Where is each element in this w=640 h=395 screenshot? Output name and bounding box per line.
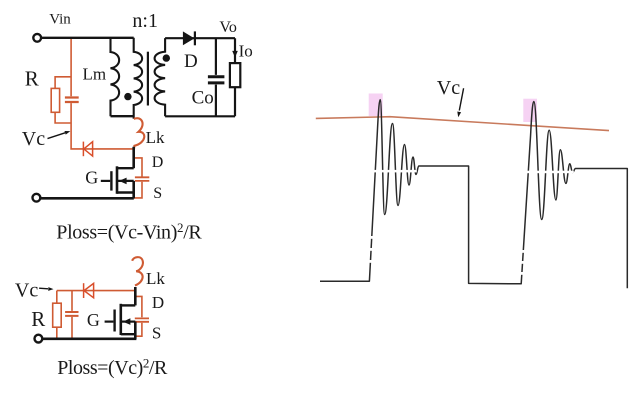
resistor R2 (clamp resistor, bottom circuit) xyxy=(53,291,62,339)
svg-text:Vo: Vo xyxy=(219,19,237,36)
terminal (top-left input) xyxy=(33,34,41,42)
label R (top circuit) xyxy=(25,67,39,91)
diode D3 (orange clamp diode, bottom circuit) xyxy=(84,283,94,298)
svg-text:S: S xyxy=(152,324,161,343)
highlight (second clamp interval, pink) xyxy=(523,99,537,122)
label D (output diode) xyxy=(184,51,198,72)
label G (top circuit) xyxy=(85,168,98,188)
wire (secondary top rail to Vo) xyxy=(165,37,235,39)
svg-text:n:1: n:1 xyxy=(132,10,158,32)
svg-text:G: G xyxy=(85,168,98,188)
transformer primary winding xyxy=(134,38,142,119)
svg-text:Vc: Vc xyxy=(15,280,38,302)
diode D1 (output rectifier) xyxy=(183,31,195,45)
svg-text:Lm: Lm xyxy=(83,65,107,84)
svg-text:Ploss=(Vc)2/R: Ploss=(Vc)2/R xyxy=(57,356,168,380)
label Ploss formula (top circuit) xyxy=(56,220,202,244)
svg-text:Lk: Lk xyxy=(146,269,165,288)
svg-text:Lk: Lk xyxy=(146,128,165,147)
arrow (Vc pointer, bottom circuit) xyxy=(39,287,53,291)
wire (transformer bottom jumper Lm to primary) xyxy=(111,115,134,117)
label Vin xyxy=(49,12,71,28)
terminal (bottom-left return, top circuit) xyxy=(33,194,41,202)
diode D2 (orange clamp diode) xyxy=(83,142,92,157)
transformer core xyxy=(147,52,149,106)
label Ploss formula (bottom circuit) xyxy=(57,356,168,380)
svg-text:D: D xyxy=(152,154,164,171)
label Io xyxy=(239,42,253,61)
wire (white gap band over ringing, period 1) xyxy=(368,170,417,173)
arrow (Vc pointer, top circuit) xyxy=(48,131,71,139)
label Lm xyxy=(83,65,107,84)
svg-text:Io: Io xyxy=(239,42,253,61)
label Lk (top circuit) xyxy=(146,128,165,147)
label S (bottom MOSFET) xyxy=(152,324,161,343)
inductor Lm (magnetizing inductance) xyxy=(111,38,120,116)
capacitor C2 (orange drain-source cap, top circuit) xyxy=(134,158,150,198)
svg-text:Vc: Vc xyxy=(22,128,45,150)
wire (output bottom rail) xyxy=(165,115,235,117)
wire (dash gaps on rising edge, period 2) xyxy=(521,250,525,275)
capacitor C1 (clamp cap) xyxy=(65,98,79,103)
capacitor C4 (orange drain-source cap, bottom circuit) xyxy=(135,296,149,336)
svg-text:D: D xyxy=(184,51,198,72)
label R (bottom circuit) xyxy=(31,307,45,331)
node Vc clamp voltage line (orange) xyxy=(316,117,609,131)
label Co xyxy=(192,88,214,109)
label Vo xyxy=(219,19,237,36)
svg-text:R: R xyxy=(25,67,39,91)
resistor RL (output load) xyxy=(230,38,240,116)
label n:1 xyxy=(132,10,158,32)
wire (Vc clamp rail, bottom circuit) xyxy=(57,290,135,292)
transformer secondary winding xyxy=(155,38,166,116)
label Vc (waveform) xyxy=(437,77,460,99)
label D (bottom MOSFET) xyxy=(152,293,164,312)
waveform (drain voltage, two switching periods) xyxy=(320,100,627,289)
svg-text:Vin: Vin xyxy=(49,12,71,28)
wire (dash gaps on rising edge, period 1) xyxy=(369,236,373,263)
wire (Vin top rail) xyxy=(41,37,134,39)
svg-text:Co: Co xyxy=(192,88,214,109)
svg-text:Vc: Vc xyxy=(437,77,460,99)
node Vc orange rail (snubber vertical wire) xyxy=(71,38,134,149)
wire (bottom rail, bottom circuit) xyxy=(43,337,137,340)
label Vc (bottom circuit) xyxy=(15,280,38,302)
label Lk (bottom circuit) xyxy=(146,269,165,288)
svg-text:D: D xyxy=(152,293,164,312)
polarity dot (secondary) xyxy=(163,54,170,61)
inductor Lk (bottom circuit) xyxy=(132,257,143,285)
svg-text:R: R xyxy=(31,307,45,331)
label S (top MOSFET) xyxy=(153,185,162,202)
terminal (bottom circuit return) xyxy=(35,335,43,343)
svg-text:G: G xyxy=(87,310,100,330)
inductor Lk (leakage inductance, top circuit) xyxy=(134,118,144,149)
arrow (Vc pointer on waveform) xyxy=(457,88,463,117)
resistor R1 (clamp resistor) xyxy=(51,77,71,123)
transistor Q2 (MOSFET, bottom circuit) xyxy=(105,287,136,339)
transistor Q1 (MOSFET, top circuit) xyxy=(101,147,134,199)
label Vc (top circuit) xyxy=(22,128,45,150)
arrow Io (load current) xyxy=(232,51,238,58)
capacitor C3 (clamp cap, bottom circuit) xyxy=(65,291,78,339)
label G (bottom circuit) xyxy=(87,310,100,330)
wire (white gap band over ringing, period 2) xyxy=(522,171,574,174)
wire (bottom return rail, top circuit) xyxy=(41,197,134,200)
capacitor Co (output cap) xyxy=(208,38,225,116)
label D (top MOSFET) xyxy=(152,154,164,171)
polarity dot (primary) xyxy=(124,93,131,100)
svg-text:S: S xyxy=(153,185,162,202)
highlight (first clamp interval, pink) xyxy=(369,94,383,117)
